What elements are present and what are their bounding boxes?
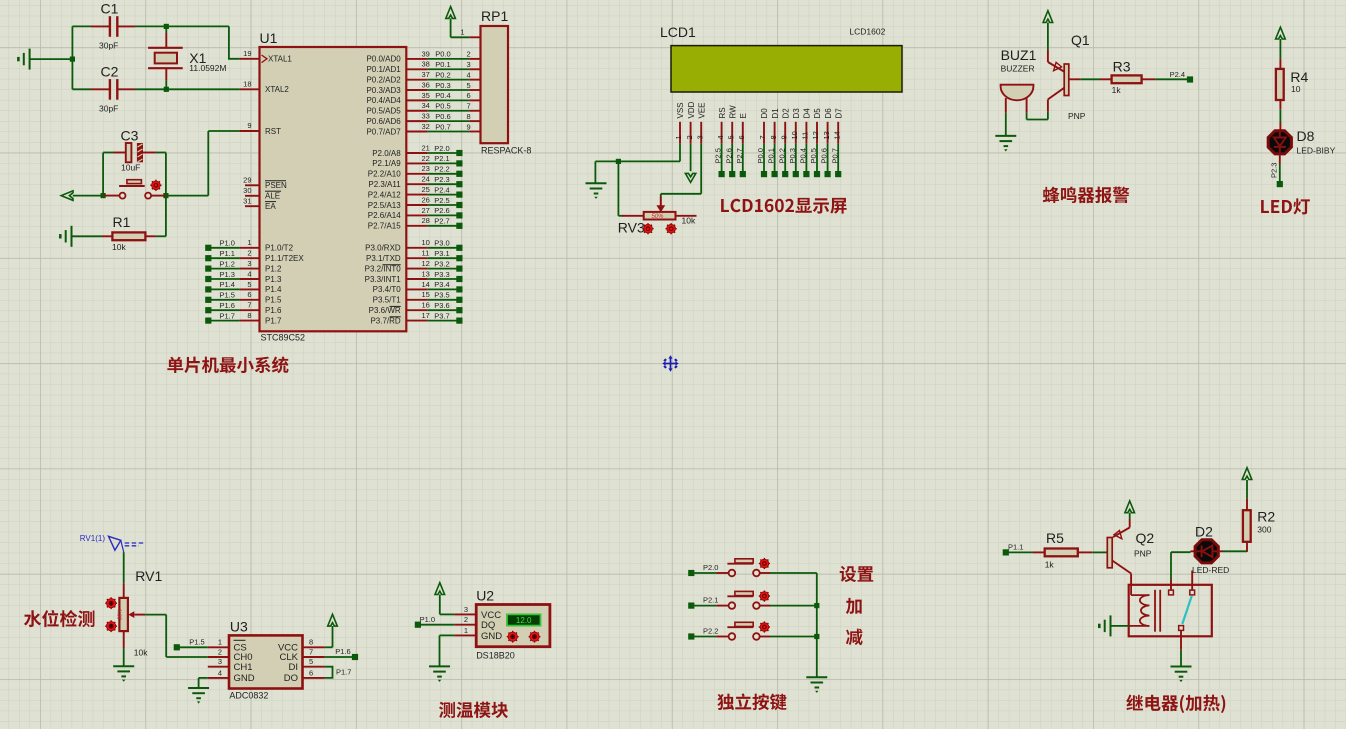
svg-text:VEE: VEE <box>697 102 706 118</box>
wire C2 to XTAL2 <box>135 88 240 90</box>
svg-text:6: 6 <box>737 135 746 139</box>
U2 pin GND (1) <box>454 626 502 642</box>
svg-text:P0.6/AD6: P0.6/AD6 <box>366 117 401 126</box>
button marker P2.1 <box>759 591 770 602</box>
svg-text:P1.5: P1.5 <box>220 291 235 300</box>
svg-text:XTAL1: XTAL1 <box>268 55 292 64</box>
svg-text:R4: R4 <box>1290 69 1308 85</box>
LCD1 pin VSS (1) <box>674 102 685 143</box>
resistor pack RP1 RESPACK-8 <box>481 8 532 156</box>
svg-text:P0.7: P0.7 <box>830 148 839 163</box>
svg-text:P3.5/T1: P3.5/T1 <box>373 296 402 305</box>
LCD1 pin VEE (3) <box>695 102 706 143</box>
U1 pin P3.3/INT1 (13) with net P3.3 <box>365 269 463 283</box>
svg-text:GND: GND <box>481 631 502 642</box>
svg-text:P2.2: P2.2 <box>434 165 449 174</box>
ground (RV1) <box>113 665 134 667</box>
svg-text:1: 1 <box>464 626 468 635</box>
svg-text:P0.1: P0.1 <box>435 60 450 69</box>
svg-text:P1.3: P1.3 <box>265 275 282 284</box>
svg-text:P2.5: P2.5 <box>714 148 723 163</box>
power VCC (U2) <box>435 583 445 615</box>
label MCU minimal system (chinese) <box>167 356 288 373</box>
svg-text:Q1: Q1 <box>1071 32 1090 48</box>
svg-text:22: 22 <box>422 154 430 163</box>
wire P1.0 to U2 DQ <box>415 615 454 628</box>
potentiometer RV3 10k <box>618 197 697 236</box>
button marker P2.2 <box>759 621 770 632</box>
svg-text:P2.7: P2.7 <box>735 148 744 163</box>
LCD1 pin D4 (11) net P0.4 <box>799 108 812 177</box>
U1 pin P2.4/A12 (25) with net P2.4 <box>368 185 463 199</box>
svg-text:P2.2: P2.2 <box>703 627 718 636</box>
svg-text:27: 27 <box>422 206 430 215</box>
svg-text:2: 2 <box>218 647 222 656</box>
ground (U3) <box>188 687 209 689</box>
svg-text:P0.0: P0.0 <box>435 50 450 59</box>
svg-text:P2.4: P2.4 <box>1170 70 1185 79</box>
U1 pin P3.1/TXD (11) with net P3.1 <box>366 249 462 263</box>
U1 pin P2.7/A15 (28) with net P2.7 <box>368 216 463 230</box>
svg-text:D6: D6 <box>824 108 833 119</box>
svg-text:P0.3: P0.3 <box>788 148 797 163</box>
svg-text:DI: DI <box>289 662 299 673</box>
svg-text:P3.7: P3.7 <box>434 311 449 320</box>
svg-text:P1.6: P1.6 <box>265 306 282 315</box>
svg-text:P2.6/A14: P2.6/A14 <box>368 211 401 220</box>
op-amp U1 body (STC89C52 MCU) <box>260 30 407 343</box>
svg-text:D4: D4 <box>803 108 812 119</box>
svg-text:1: 1 <box>460 28 464 37</box>
crystal X1 <box>148 26 226 89</box>
svg-text:P2.3/A11: P2.3/A11 <box>368 180 401 189</box>
svg-text:D8: D8 <box>1297 128 1315 144</box>
svg-text:8: 8 <box>467 112 471 121</box>
svg-text:P2.4: P2.4 <box>434 185 449 194</box>
relay RL1 (heater) <box>1129 585 1212 637</box>
U3 pin CS (1) <box>208 638 247 654</box>
U1 pin P3.5/T1 (15) with net P3.5 <box>373 290 463 304</box>
U1 pin RST (9) <box>240 121 282 136</box>
svg-text:BUZZER: BUZZER <box>1001 64 1035 74</box>
svg-text:P2.1/A9: P2.1/A9 <box>372 159 401 168</box>
svg-text:P0.0: P0.0 <box>756 148 765 163</box>
svg-text:P2.0: P2.0 <box>703 563 718 572</box>
svg-text:6: 6 <box>467 91 471 100</box>
label set (chinese) <box>840 566 874 582</box>
label LED lamp (chinese) <box>1261 198 1310 214</box>
U1 pin PSEN (29) <box>243 176 287 191</box>
U3 pin DI (5) <box>289 657 325 673</box>
relay contact NO <box>1190 571 1195 595</box>
svg-text:1k: 1k <box>1045 560 1055 570</box>
ground (crystal caps) <box>18 49 72 70</box>
U1 pin P2.3/A11 (24) with net P2.3 <box>368 175 462 189</box>
svg-text:8: 8 <box>309 638 313 647</box>
svg-text:P0.2: P0.2 <box>435 70 450 79</box>
U1 pin P0.3/AD3 (36) wire to RP1 pin 5 <box>366 80 480 94</box>
svg-text:P1.7: P1.7 <box>336 668 351 677</box>
svg-text:P2.0: P2.0 <box>434 144 449 153</box>
svg-text:P0.6: P0.6 <box>820 148 829 163</box>
U1 pin EA (31) <box>243 196 276 211</box>
RV3 markers <box>642 223 676 234</box>
svg-text:P1.1: P1.1 <box>220 249 235 258</box>
U1 pin P2.1/A9 (22) with net P2.1 <box>372 154 462 168</box>
svg-text:4: 4 <box>218 668 222 677</box>
node junction VSS/RV3 <box>616 159 621 164</box>
LCD1 pin VDD (2) <box>685 101 696 143</box>
svg-text:XTAL2: XTAL2 <box>265 85 289 94</box>
svg-text:P0.2/AD2: P0.2/AD2 <box>366 75 401 84</box>
svg-text:P2.5/A13: P2.5/A13 <box>368 201 401 210</box>
svg-text:P2.2/A10: P2.2/A10 <box>368 170 401 179</box>
svg-text:50%: 50% <box>652 214 665 220</box>
svg-text:CH1: CH1 <box>234 662 253 673</box>
svg-text:D1: D1 <box>771 108 780 119</box>
wire U3 DI/DO to P1.7 <box>325 667 352 678</box>
svg-text:P3.0: P3.0 <box>434 239 449 248</box>
wire relay common to ground <box>1180 650 1182 666</box>
node junction gnd/C1C2 <box>70 57 75 62</box>
svg-text:3: 3 <box>464 605 468 614</box>
label buzzer alarm (chinese) <box>1043 187 1130 204</box>
power VCC (R2) <box>1242 468 1252 499</box>
wire U2 VCC to power <box>440 613 454 615</box>
node junction C3 right / R1 <box>163 193 168 198</box>
ground (buzzer) <box>995 135 1016 137</box>
svg-text:RV1: RV1 <box>135 568 162 584</box>
resistor R3 1k <box>1081 59 1155 96</box>
transistor Q2 PNP <box>1107 519 1154 585</box>
RV1 markers <box>105 597 117 632</box>
svg-text:D3: D3 <box>792 108 801 119</box>
svg-text:P1.5: P1.5 <box>189 638 204 647</box>
svg-text:DS18B20: DS18B20 <box>476 651 515 661</box>
capacitor C2 <box>91 64 135 114</box>
svg-text:VDD: VDD <box>687 101 696 118</box>
LCD1 pin D1 (8) net P0.1 <box>767 108 780 177</box>
svg-text:34: 34 <box>422 101 430 110</box>
svg-text:38: 38 <box>422 60 430 69</box>
wire R5 to Q2 base <box>1092 551 1107 553</box>
svg-text:P1.7: P1.7 <box>220 311 235 320</box>
wire buzzer to ground <box>1005 113 1007 136</box>
label relay heater (chinese) <box>1126 694 1225 713</box>
ground (LCD VSS) <box>586 182 607 184</box>
wire RV1 wiper to U3 CH0 <box>145 615 208 657</box>
svg-text:P0.1/AD1: P0.1/AD1 <box>366 65 401 74</box>
LCD1 pin RS (4) net P2.5 <box>714 107 727 177</box>
svg-text:ADC0832: ADC0832 <box>229 691 268 701</box>
label temperature module (chinese) <box>439 702 508 718</box>
svg-text:P0.3: P0.3 <box>435 81 450 90</box>
svg-text:P1.4: P1.4 <box>265 285 282 294</box>
svg-text:13: 13 <box>422 269 430 278</box>
capacitor C3 <box>103 128 166 196</box>
svg-text:13: 13 <box>822 131 831 139</box>
svg-text:LED-RED: LED-RED <box>1192 565 1229 575</box>
svg-text:3: 3 <box>467 60 471 69</box>
wire left vertical C1-C2 <box>72 26 91 89</box>
svg-text:16: 16 <box>422 301 430 310</box>
transistor Q1 PNP <box>1048 32 1090 121</box>
U3 pin CH1 (3) <box>208 657 253 673</box>
svg-text:32: 32 <box>422 122 430 131</box>
buzzer BUZ1 <box>1001 47 1037 113</box>
svg-text:P0.4: P0.4 <box>799 148 808 163</box>
svg-text:R3: R3 <box>1113 59 1131 75</box>
svg-text:4: 4 <box>247 269 251 278</box>
svg-text:P3.1/TXD: P3.1/TXD <box>366 254 401 263</box>
LCD1 pin D7 (14) net P0.7 <box>830 108 843 177</box>
U1 pin P3.7/RD (17) with net P3.7 <box>370 311 462 325</box>
svg-text:1k: 1k <box>1112 85 1122 95</box>
svg-text:6: 6 <box>247 290 251 299</box>
svg-text:P2.1: P2.1 <box>434 154 449 163</box>
label plus (chinese) <box>846 598 862 614</box>
wire VEE to RV3 wiper <box>661 144 701 197</box>
svg-text:PSEN: PSEN <box>265 181 287 190</box>
svg-text:C1: C1 <box>101 1 119 17</box>
svg-text:D7: D7 <box>834 108 843 119</box>
svg-text:17: 17 <box>422 311 430 320</box>
svg-text:RST: RST <box>265 127 281 136</box>
svg-text:D2: D2 <box>1195 524 1213 540</box>
LCD1 pin D6 (13) net P0.6 <box>820 108 833 177</box>
svg-text:P3.3: P3.3 <box>434 270 449 279</box>
U1 pin P1.3 (4) with net P1.3 <box>205 269 282 283</box>
svg-text:P2.3: P2.3 <box>1269 163 1278 178</box>
svg-text:VSS: VSS <box>676 102 685 118</box>
power VCC (R4) <box>1276 27 1286 59</box>
RP1 pin 1 wire <box>451 28 481 38</box>
capacitor C1 <box>91 1 135 51</box>
svg-text:LED-BIBY: LED-BIBY <box>1297 146 1336 156</box>
svg-text:Q2: Q2 <box>1136 530 1155 546</box>
LCD1 pin D5 (12) net P0.5 <box>809 108 822 177</box>
svg-text:U2: U2 <box>476 588 494 604</box>
power VCC (RP1) <box>446 7 456 38</box>
svg-text:P0.1: P0.1 <box>767 148 776 163</box>
wire C1 to node <box>135 25 229 27</box>
U1 pin P1.6 (7) with net P1.6 <box>205 301 282 315</box>
svg-text:RP1: RP1 <box>481 8 508 24</box>
svg-text:RV3: RV3 <box>618 220 645 236</box>
U1 pin P1.5 (6) with net P1.5 <box>205 290 282 304</box>
wire P1.1 to R5 <box>1003 543 1033 556</box>
svg-text:STC89C52: STC89C52 <box>261 333 306 343</box>
svg-text:P1.4: P1.4 <box>220 280 235 289</box>
svg-text:P0.0/AD0: P0.0/AD0 <box>366 55 401 64</box>
LCD1 pin E (6) net P2.7 <box>735 113 748 177</box>
svg-text:29: 29 <box>243 176 251 185</box>
svg-text:P2.7: P2.7 <box>434 217 449 226</box>
U1 pin XTAL1 (19) <box>240 49 293 64</box>
node junction bus P2.1 <box>814 603 819 608</box>
svg-text:7: 7 <box>467 102 471 111</box>
U1 pin P0.6/AD6 (33) wire to RP1 pin 8 <box>366 112 480 126</box>
wire U3 GND to ground <box>199 678 208 688</box>
ground (buttons) <box>806 676 827 678</box>
wire R3 to P2.4 <box>1155 70 1193 83</box>
svg-text:P1.2: P1.2 <box>265 264 282 273</box>
U2 display readout <box>507 614 541 625</box>
svg-text:12: 12 <box>422 259 430 268</box>
svg-text:LCD1602: LCD1602 <box>849 27 885 37</box>
U1 pin P1.0/T2 (1) with net P1.0 <box>205 238 293 252</box>
svg-text:D2: D2 <box>781 108 790 119</box>
svg-text:P2.1: P2.1 <box>703 596 718 605</box>
diode D8 LED-BIBY <box>1268 122 1335 164</box>
svg-text:300: 300 <box>1257 525 1271 535</box>
wire U2 GND to ground <box>440 635 455 666</box>
origin marker <box>662 355 679 372</box>
svg-text:36: 36 <box>422 80 430 89</box>
wire RV1 to ground <box>123 648 125 666</box>
label LCD1602 display (chinese) <box>721 198 847 214</box>
svg-text:10k: 10k <box>112 242 126 252</box>
svg-text:8: 8 <box>247 311 251 320</box>
svg-text:14: 14 <box>422 280 430 289</box>
relay lever <box>1182 596 1192 624</box>
LCD1 pin D2 (9) net P0.2 <box>777 108 790 177</box>
svg-text:P0.2: P0.2 <box>777 148 786 163</box>
svg-text:P2.6: P2.6 <box>724 148 733 163</box>
svg-text:11: 11 <box>801 132 810 140</box>
svg-text:P0.4: P0.4 <box>435 91 450 100</box>
svg-text:11: 11 <box>422 249 430 258</box>
push button P2.1 <box>688 591 817 608</box>
svg-text:DO: DO <box>284 673 298 684</box>
resistor R2 300 <box>1243 499 1276 552</box>
wire Q1 collector to buzzer <box>1027 112 1048 120</box>
svg-text:LCD1: LCD1 <box>660 24 696 40</box>
LCD1 pin RW (5) net P2.6 <box>724 105 737 177</box>
U1 pin P0.4/AD4 (35) wire to RP1 pin 6 <box>366 91 480 105</box>
node junction bus P2.2 <box>814 634 819 639</box>
svg-text:2: 2 <box>247 249 251 258</box>
svg-text:18: 18 <box>243 80 251 89</box>
svg-text:P0.4/AD4: P0.4/AD4 <box>366 96 401 105</box>
button marker P2.0 <box>759 558 770 569</box>
svg-text:2: 2 <box>464 615 468 624</box>
U1 pin P0.5/AD5 (34) wire to RP1 pin 7 <box>366 101 480 115</box>
svg-text:19: 19 <box>243 49 251 58</box>
wire P1.5 to U3 CS <box>174 638 208 651</box>
svg-text:10: 10 <box>422 238 430 247</box>
svg-text:33: 33 <box>422 112 430 121</box>
svg-text:P3.1: P3.1 <box>434 249 449 258</box>
svg-text:P2.4/A12: P2.4/A12 <box>368 190 401 199</box>
svg-text:RW: RW <box>728 105 737 119</box>
U1 pin P1.1/T2EX (2) with net P1.1 <box>205 249 304 263</box>
svg-text:P3.4/T0: P3.4/T0 <box>373 285 402 294</box>
push button (reset) <box>103 180 166 199</box>
svg-text:9: 9 <box>467 122 471 131</box>
svg-text:P0.5: P0.5 <box>809 148 818 163</box>
svg-text:RV1(1): RV1(1) <box>80 534 106 543</box>
ground (U2) <box>429 665 450 667</box>
button marker <box>150 180 161 191</box>
LCD1 pin D0 (7) net P0.0 <box>756 108 769 177</box>
wire reset row <box>73 195 209 197</box>
diode D2 LED-RED <box>1191 524 1230 576</box>
LCD LCD1 label <box>660 24 886 40</box>
U2 pin DQ (2) <box>454 615 495 631</box>
svg-text:P0.7/AD7: P0.7/AD7 <box>366 127 401 136</box>
bus end arrow (reset row) <box>61 191 73 201</box>
svg-text:P1.0/T2: P1.0/T2 <box>265 244 294 253</box>
LCD screen <box>671 46 902 92</box>
U1 pin P3.2/INT0 (12) with net P3.2 <box>365 259 463 273</box>
svg-text:D0: D0 <box>760 108 769 119</box>
svg-text:P3.0/RXD: P3.0/RXD <box>365 244 401 253</box>
svg-text:P1.6: P1.6 <box>220 301 235 310</box>
relay contact NC wire to D2 <box>1169 552 1191 595</box>
svg-text:7: 7 <box>247 301 251 310</box>
probe RV1(1) <box>80 534 145 552</box>
svg-text:5: 5 <box>726 135 735 139</box>
U1 pin P2.5/A13 (26) with net P2.5 <box>368 195 463 209</box>
svg-text:25: 25 <box>422 185 430 194</box>
svg-text:P1.3: P1.3 <box>220 270 235 279</box>
svg-text:P2.6: P2.6 <box>434 206 449 215</box>
svg-text:3: 3 <box>247 259 251 268</box>
svg-text:2: 2 <box>467 50 471 59</box>
svg-text:P2.7/A15: P2.7/A15 <box>368 222 401 231</box>
svg-text:P3.2: P3.2 <box>434 259 449 268</box>
svg-text:9: 9 <box>779 135 788 139</box>
svg-text:C3: C3 <box>121 128 139 144</box>
svg-text:35: 35 <box>422 91 430 100</box>
potentiometer RV1 10k <box>118 568 163 658</box>
ground (relay common) <box>1171 666 1192 668</box>
svg-text:1: 1 <box>247 238 251 247</box>
wire D2 to R2 <box>1223 550 1247 552</box>
U3 pin DO (6) <box>284 668 325 684</box>
svg-text:10k: 10k <box>134 648 148 658</box>
svg-text:RS: RS <box>718 107 727 118</box>
svg-text:1: 1 <box>674 135 683 139</box>
label water level detect (chinese) <box>24 610 95 627</box>
svg-text:P2.5: P2.5 <box>434 196 449 205</box>
svg-text:24: 24 <box>422 175 430 184</box>
svg-text:37: 37 <box>422 70 430 79</box>
svg-text:30pF: 30pF <box>99 41 118 51</box>
power VCC (Q2) <box>1125 501 1135 519</box>
U1 pin P0.7/AD7 (32) wire to RP1 pin 9 <box>366 122 480 136</box>
svg-text:P2.3: P2.3 <box>434 175 449 184</box>
svg-text:8: 8 <box>769 135 778 139</box>
svg-text:P1.5: P1.5 <box>265 296 282 305</box>
svg-text:3: 3 <box>218 657 222 666</box>
U1 pin P2.6/A14 (27) with net P2.6 <box>368 206 463 220</box>
svg-text:R2: R2 <box>1257 509 1275 525</box>
U1 pin P0.1/AD1 (38) wire to RP1 pin 3 <box>366 60 480 74</box>
svg-text:P2.0/A8: P2.0/A8 <box>372 149 401 158</box>
svg-text:28: 28 <box>422 216 430 225</box>
resistor R1 <box>72 196 166 252</box>
wire button bus <box>816 573 818 677</box>
resistor R5 1k <box>1033 530 1092 570</box>
U1 pin P3.6/WR (16) with net P3.6 <box>369 301 463 315</box>
svg-text:BUZ1: BUZ1 <box>1001 47 1037 63</box>
wire D8 to P2.3 <box>1269 163 1282 188</box>
U2 knobs <box>507 631 541 643</box>
svg-text:23: 23 <box>422 164 430 173</box>
U1 pin P3.4/T0 (14) with net P3.4 <box>373 280 463 294</box>
